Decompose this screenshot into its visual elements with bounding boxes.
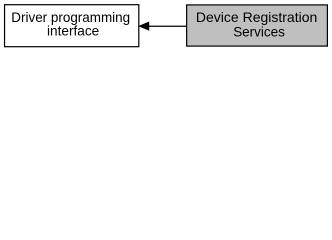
svg-text:Services: Services bbox=[233, 23, 285, 39]
svg-text:interface: interface bbox=[47, 23, 99, 39]
